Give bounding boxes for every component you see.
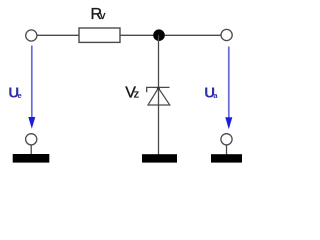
zener diode junction dot at apex <box>157 87 160 90</box>
wire resistor to terminal top-right <box>120 34 222 36</box>
resistor Rv <box>79 28 120 42</box>
ground bottom-right <box>211 154 242 162</box>
terminal bottom-left <box>26 134 37 145</box>
wire bottom-right terminal to ground <box>226 145 228 155</box>
wire terminal to resistor <box>37 34 79 36</box>
zener diode Vz triangle <box>148 88 170 105</box>
wire node down to ground <box>158 35 160 154</box>
voltage arrow Ue line <box>31 46 33 120</box>
terminal bottom-right <box>221 134 232 145</box>
voltage arrow Ua line <box>228 47 230 120</box>
terminal top-right <box>221 29 232 40</box>
zener diode Vz cathode bar with tab <box>147 87 170 92</box>
ground bottom-left <box>13 154 50 163</box>
voltage arrow Ua head <box>225 117 232 129</box>
voltage arrow Ue head <box>28 117 35 129</box>
node junction <box>153 29 165 41</box>
terminal top-left <box>26 30 37 41</box>
wire bottom-left terminal to ground <box>30 145 32 155</box>
ground middle <box>142 154 177 162</box>
